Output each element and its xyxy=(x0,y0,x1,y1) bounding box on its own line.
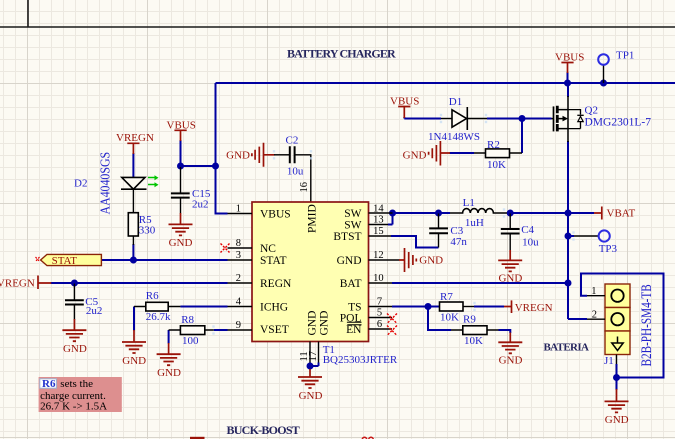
svg-text:R8: R8 xyxy=(181,314,194,326)
svg-text:10K: 10K xyxy=(440,311,459,323)
svg-text:VBUS: VBUS xyxy=(260,208,291,220)
svg-text:B2B-PH-SM4-TB: B2B-PH-SM4-TB xyxy=(639,284,655,366)
svg-text:R7: R7 xyxy=(440,291,453,303)
test point TP3 xyxy=(574,235,599,237)
wire node to VBUS rail xyxy=(181,165,216,167)
svg-text:GND: GND xyxy=(122,355,146,367)
wire TS junction to R7 xyxy=(392,306,440,308)
wire STAT row xyxy=(101,259,227,261)
wire L1 to Q2 column xyxy=(508,212,594,214)
wire R7 right to VREGN port xyxy=(474,306,504,308)
svg-text:14: 14 xyxy=(373,204,384,215)
svg-text:VBUS: VBUS xyxy=(555,52,584,64)
power port VREGN (over D2) xyxy=(127,143,139,154)
svg-text:15: 15 xyxy=(373,226,384,237)
port STAT xyxy=(41,254,102,265)
svg-text:R6: R6 xyxy=(42,378,56,390)
svg-text:4: 4 xyxy=(236,297,242,308)
resistor R6 xyxy=(146,302,168,311)
node SW/C4 xyxy=(507,210,514,217)
ground right of pin 12 xyxy=(399,248,416,272)
capacitor C4 xyxy=(501,214,520,251)
svg-text:1: 1 xyxy=(591,286,596,297)
svg-text:Q2: Q2 xyxy=(585,104,598,116)
sheet border line xyxy=(0,0,675,27)
svg-text:VBAT: VBAT xyxy=(607,208,636,220)
wire R9 right to GND stem xyxy=(499,330,511,333)
wire R8 right to pin 9 xyxy=(214,329,228,331)
node VBUS rail/C2 column xyxy=(212,163,219,170)
svg-text:C2: C2 xyxy=(286,134,299,146)
wire R6 left to GND xyxy=(133,307,135,331)
svg-text:100: 100 xyxy=(182,335,199,347)
node VBUS/Q2 xyxy=(564,80,571,87)
svg-text:12: 12 xyxy=(373,250,384,261)
wire VBUS-D1 label stem xyxy=(404,117,441,119)
svg-text:R2: R2 xyxy=(487,139,500,151)
svg-text:16: 16 xyxy=(299,182,310,193)
svg-text:GND: GND xyxy=(498,272,522,284)
ground below C4 xyxy=(509,250,511,260)
inductor L1 xyxy=(450,209,507,213)
svg-text:2: 2 xyxy=(236,273,241,284)
J1 shield arrow xyxy=(617,337,619,344)
wire R6 right to pin 4 xyxy=(180,306,227,308)
svg-text:1uH: 1uH xyxy=(465,217,484,229)
wire pin13 jog to SW node xyxy=(388,213,393,225)
svg-text:GND: GND xyxy=(499,354,523,366)
svg-text:VBUS: VBUS xyxy=(390,96,419,108)
svg-text:BUCK-BOOST: BUCK-BOOST xyxy=(227,423,300,437)
connector J1 boxes xyxy=(605,284,630,355)
svg-text:C4: C4 xyxy=(521,224,534,236)
svg-text:SW: SW xyxy=(344,219,361,231)
J1 pin lines xyxy=(587,296,617,364)
svg-text:6: 6 xyxy=(377,319,382,330)
svg-text:2: 2 xyxy=(592,310,597,321)
svg-text:NC: NC xyxy=(260,243,276,255)
wire gate node down to R2 xyxy=(521,119,523,154)
wire R2 left to GND xyxy=(450,152,475,154)
resistor R8 xyxy=(180,326,204,335)
wire BAT row to J1 pin2 xyxy=(568,318,587,320)
ground below R9 xyxy=(509,333,511,343)
svg-text:GND: GND xyxy=(319,311,331,336)
port VBAT xyxy=(594,207,602,220)
ground below C15 xyxy=(180,213,182,224)
svg-text:BTST: BTST xyxy=(333,231,361,243)
resistor R5 xyxy=(128,213,138,236)
port VREGN (right of R7) xyxy=(504,300,512,313)
wire VBUS top rail xyxy=(216,82,675,84)
wire BAT row pin10 to column xyxy=(392,282,568,284)
svg-text:VBUS: VBUS xyxy=(167,119,196,131)
svg-text:ICHG: ICHG xyxy=(260,301,288,313)
svg-text:10: 10 xyxy=(373,273,384,284)
wire BTST to C3 bottom xyxy=(391,236,439,248)
svg-text:17: 17 xyxy=(308,351,319,362)
transistor Q2 xyxy=(552,96,584,142)
J1 pin circles xyxy=(611,290,623,302)
svg-text:GND: GND xyxy=(337,255,362,267)
svg-text:1: 1 xyxy=(236,204,241,215)
svg-text:8: 8 xyxy=(236,238,241,249)
IC U1 body xyxy=(252,202,369,342)
capacitor C3 xyxy=(429,214,448,248)
cut-off marks bottom center xyxy=(362,437,374,439)
wire VREGN label stem to LED anode xyxy=(132,153,134,178)
node BAT row xyxy=(565,280,572,287)
svg-text:10u: 10u xyxy=(522,236,539,248)
svg-text:2u2: 2u2 xyxy=(192,198,209,210)
svg-text:10u: 10u xyxy=(287,166,304,178)
svg-text:GND: GND xyxy=(307,311,319,336)
wire J1 pin1 loop to bottom node xyxy=(581,274,664,378)
node D1/R2/Q2 gate xyxy=(519,115,526,122)
svg-text:TP1: TP1 xyxy=(616,50,634,62)
svg-text:330: 330 xyxy=(139,224,156,236)
svg-text:47n: 47n xyxy=(450,236,467,248)
svg-text:VSET: VSET xyxy=(260,324,289,336)
svg-text:AA4040SGS: AA4040SGS xyxy=(98,152,113,215)
wire R8 left down to GND xyxy=(168,330,170,344)
capacitor C15 xyxy=(171,167,190,214)
ground T1 bottom xyxy=(309,369,311,377)
svg-text:TP3: TP3 xyxy=(599,243,618,255)
wire T1 GND pins join xyxy=(310,363,319,370)
svg-text:D1: D1 xyxy=(449,96,462,108)
node J1 GND xyxy=(613,374,620,381)
no-ERC mark pin 8 xyxy=(221,244,230,253)
svg-text:10K: 10K xyxy=(464,335,483,347)
svg-text:GND: GND xyxy=(157,367,181,379)
svg-text:SW: SW xyxy=(344,208,361,220)
ground left of C2 xyxy=(252,143,275,167)
wire VBUS port to Q2 top xyxy=(567,72,569,83)
IC right pin lines xyxy=(369,213,400,329)
power port VREGN (left edge) xyxy=(38,276,51,290)
capacitor C2 xyxy=(274,146,311,202)
svg-text:10K: 10K xyxy=(487,159,506,171)
svg-text:R6: R6 xyxy=(146,290,159,302)
svg-text:GND: GND xyxy=(403,150,427,162)
wire TS node down to R9 row xyxy=(428,307,451,331)
svg-text:9: 9 xyxy=(236,320,241,331)
svg-text:STAT: STAT xyxy=(52,255,78,267)
wire J1 shield pin to GND xyxy=(616,364,618,390)
svg-text:GND: GND xyxy=(226,150,250,162)
svg-text:VREGN: VREGN xyxy=(0,278,35,290)
resistor R2 xyxy=(486,149,510,158)
node SW/C3 xyxy=(435,210,442,217)
svg-text:1N4148WS: 1N4148WS xyxy=(428,131,480,143)
node TS/R7/R9 xyxy=(425,303,432,310)
svg-text:BAT: BAT xyxy=(340,278,362,290)
node VBUS/C15 xyxy=(177,163,184,170)
no-ERC mark pin 6 xyxy=(387,326,397,336)
test point TP1 xyxy=(603,65,605,83)
svg-text:5: 5 xyxy=(377,308,382,319)
capacitor C5 xyxy=(65,284,84,321)
node TP3 xyxy=(565,233,572,240)
ground below C5 xyxy=(73,319,75,330)
node T1 GND pins xyxy=(307,363,314,370)
LED D2 xyxy=(121,177,147,212)
node VBAT/Q2 xyxy=(565,210,572,217)
svg-text:STAT: STAT xyxy=(260,255,287,267)
node SW pins xyxy=(389,210,396,217)
wire D1 cathode to gate node xyxy=(487,118,552,120)
svg-text:VREGN: VREGN xyxy=(515,302,553,314)
svg-text:26.7k: 26.7k xyxy=(146,311,171,323)
wire VBUS rail down to pin 1 xyxy=(216,83,228,214)
resistor R7 xyxy=(440,302,464,311)
wire TP3 stub xyxy=(568,235,574,237)
svg-text:2u2: 2u2 xyxy=(86,305,103,317)
svg-text:EN: EN xyxy=(346,324,362,336)
ground below R6 xyxy=(133,330,135,342)
svg-text:VREGN: VREGN xyxy=(116,132,154,144)
svg-text:13: 13 xyxy=(373,215,384,226)
node TP1 xyxy=(600,80,607,87)
wire stub cut at bottom left xyxy=(190,437,205,439)
no-ERC mark pin 5 xyxy=(387,314,397,324)
svg-text:D2: D2 xyxy=(74,178,87,190)
IC left pin lines xyxy=(228,214,253,331)
ground left of R2 xyxy=(429,141,450,166)
svg-text:REGN: REGN xyxy=(260,278,292,290)
no-ERC mark at STAT tip xyxy=(36,257,40,262)
resistor R9 xyxy=(463,326,487,335)
power port VBUS (D1) xyxy=(398,107,410,119)
power port VBUS (over C15) xyxy=(174,130,186,141)
svg-text:GND: GND xyxy=(605,414,629,426)
ground below J1 xyxy=(616,389,618,401)
ground below R8 xyxy=(168,343,170,354)
svg-text:7: 7 xyxy=(377,297,382,308)
svg-text:BQ25303JRTER: BQ25303JRTER xyxy=(323,354,398,366)
svg-text:L1: L1 xyxy=(463,197,475,209)
svg-text:3: 3 xyxy=(236,250,241,261)
node STAT/R5 xyxy=(130,257,137,264)
svg-text:26.7 K -> 1.5A: 26.7 K -> 1.5A xyxy=(40,401,107,413)
wire SW row to L1 xyxy=(393,212,451,214)
wire VBUS label stem to node xyxy=(180,140,182,166)
wire Q2 source column down through VBAT and BAT rows xyxy=(567,83,569,319)
wire R5 bottom to STAT node xyxy=(132,244,134,260)
power port VBUS (top right) xyxy=(561,63,573,74)
IC bottom pin lines 11,17 xyxy=(310,342,319,363)
note box xyxy=(39,377,122,412)
svg-text:GND: GND xyxy=(169,237,193,249)
svg-text:GND: GND xyxy=(299,390,323,402)
svg-text:BATTERY CHARGER: BATTERY CHARGER xyxy=(287,47,396,61)
hotspot markers xyxy=(212,114,574,335)
svg-text:DMG2301L-7: DMG2301L-7 xyxy=(585,116,652,128)
LED light arrows xyxy=(148,175,159,187)
diode D1 xyxy=(441,107,487,130)
svg-text:PMID: PMID xyxy=(307,204,319,233)
svg-text:GND: GND xyxy=(419,255,443,267)
wire REGN row xyxy=(51,282,228,284)
node VREGN/C5 xyxy=(71,280,78,287)
svg-text:BATERIA: BATERIA xyxy=(544,342,589,354)
svg-text:R9: R9 xyxy=(463,314,476,326)
svg-text:GND: GND xyxy=(63,343,87,355)
svg-text:sets the: sets the xyxy=(60,378,93,390)
svg-text:J1: J1 xyxy=(604,355,614,367)
